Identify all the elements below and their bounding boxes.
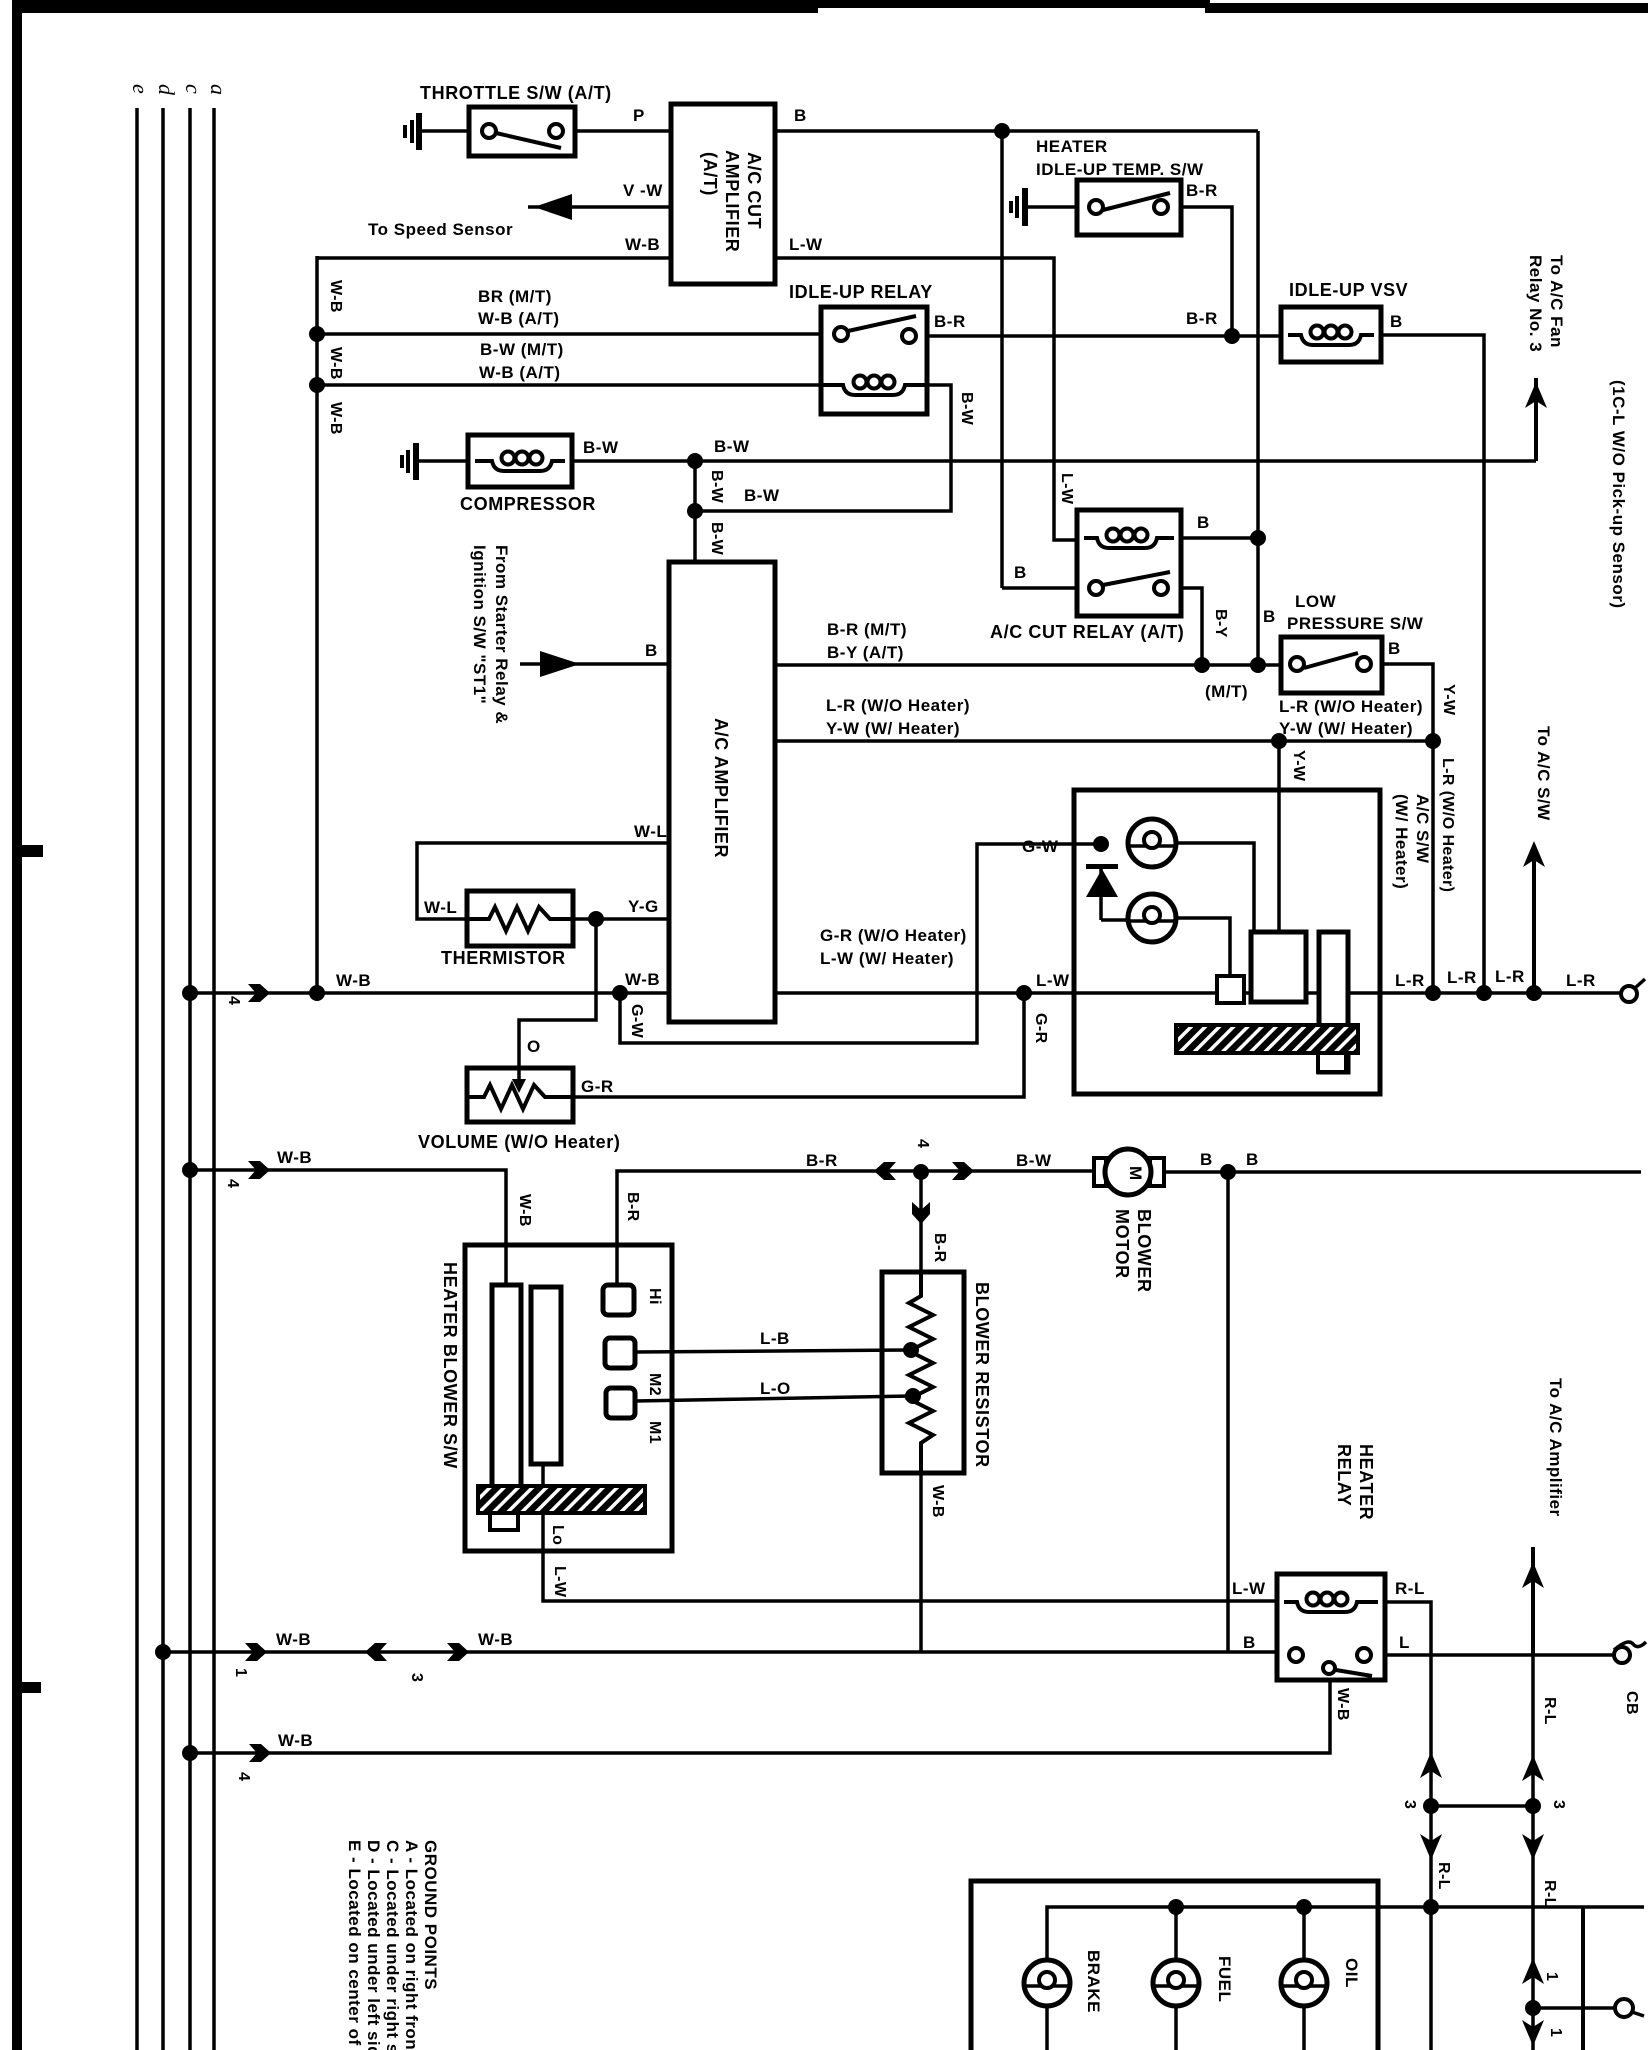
ground bus line d xyxy=(161,108,165,2050)
junction dot riser/relay wire2 xyxy=(309,377,325,393)
wire W-B from amp to left riser xyxy=(317,256,671,260)
junction dot at 1484 xyxy=(1476,985,1492,1001)
svg-text:Lo: Lo xyxy=(549,1525,566,1545)
switch box A/C S/W (W/ Heater) xyxy=(1074,790,1380,1094)
arrow W-B 4 lower xyxy=(249,1744,271,1762)
svg-text:PRESSURE S/W: PRESSURE S/W xyxy=(1287,614,1424,633)
arrow B-W right chevron xyxy=(952,1162,974,1180)
svg-text:B-W: B-W xyxy=(583,438,619,457)
svg-text:W-B: W-B xyxy=(478,1630,513,1649)
svg-text:B-R: B-R xyxy=(624,1192,641,1222)
svg-text:R-L: R-L xyxy=(1541,1880,1558,1908)
wire B down to heater relay xyxy=(1226,1172,1230,1652)
junction dot at bus line d xyxy=(155,1644,171,1660)
ground bus line a xyxy=(212,108,216,2050)
svg-text:d: d xyxy=(154,84,179,96)
svg-text:B: B xyxy=(1200,1150,1213,1169)
junction dot crossover left xyxy=(1423,1798,1439,1814)
svg-text:To A/C Fan: To A/C Fan xyxy=(1547,255,1566,348)
switch THROTTLE S/W (A/T) xyxy=(469,107,575,156)
svg-text:M1: M1 xyxy=(646,1421,663,1444)
svg-text:L-R (W/O Heater): L-R (W/O Heater) xyxy=(826,696,970,715)
relay IDLE-UP RELAY xyxy=(821,307,927,414)
wire OIL drop xyxy=(1302,1907,1306,1960)
svg-text:B-R: B-R xyxy=(1186,309,1218,328)
wire W-B bus ground 1/3 to heater relay B xyxy=(163,1650,1277,1654)
arrow up on right R-L xyxy=(1522,1755,1544,1781)
svg-text:G-R: G-R xyxy=(1032,1013,1049,1044)
svg-text:W-L: W-L xyxy=(424,898,457,917)
svg-text:L-R: L-R xyxy=(1447,968,1477,987)
label BLOWER MOTOR rotated xyxy=(1112,1209,1154,1293)
wire lamp feed drop right xyxy=(1581,1907,1585,2050)
svg-text:B-R: B-R xyxy=(1186,181,1218,200)
relay HEATER RELAY xyxy=(1277,1574,1385,1680)
svg-text:L-R: L-R xyxy=(1395,971,1425,990)
wire G-W down around amp to A/C S/W xyxy=(620,844,1101,1043)
label To A/C Amplifier rotated with arrow xyxy=(1522,1378,1565,1655)
svg-text:CB: CB xyxy=(1623,1691,1640,1715)
wire crossover R-L xyxy=(1431,1804,1533,1808)
junction dot at 1534 xyxy=(1526,985,1542,1001)
svg-text:IDLE-UP RELAY: IDLE-UP RELAY xyxy=(789,282,933,302)
wire relay switch output down xyxy=(1181,588,1202,665)
wire O from Y-G junction to volume xyxy=(519,919,596,1068)
svg-text:1: 1 xyxy=(232,1668,249,1677)
arrow W-B 4 second xyxy=(248,1161,270,1179)
svg-text:M: M xyxy=(1126,1166,1145,1181)
wire B-W down to A/C amplifier top xyxy=(693,461,697,562)
potentiometer VOLUME (W/O Heater) xyxy=(467,1068,573,1122)
junction dot terminal feed xyxy=(1525,2000,1541,2016)
svg-text:L: L xyxy=(1399,1633,1410,1652)
wire R-L heater relay coil down xyxy=(1385,1602,1431,2050)
svg-text:B: B xyxy=(1263,607,1276,626)
lamp FUEL xyxy=(1153,1960,1199,2050)
junction dot at bus line c lower xyxy=(182,1745,198,1761)
label A/C S/W (W/ Heater) rotated xyxy=(1392,794,1432,889)
page frame top bar xyxy=(12,0,818,13)
solenoid IDLE-UP VSV xyxy=(1281,307,1381,362)
wire B-R from idle-up relay to right xyxy=(927,334,1281,338)
svg-text:1: 1 xyxy=(1547,2028,1564,2037)
svg-text:R-L: R-L xyxy=(1395,1579,1425,1598)
svg-text:E - Located on center of engin: E - Located on center of engine xyxy=(345,1840,364,2050)
svg-text:W-B: W-B xyxy=(929,1485,946,1518)
wire R-L right vertical xyxy=(1531,1655,1535,2050)
svg-text:4: 4 xyxy=(224,1179,241,1188)
svg-text:LOW: LOW xyxy=(1295,592,1337,611)
svg-text:FUEL: FUEL xyxy=(1215,1956,1234,2002)
svg-text:COMPRESSOR: COMPRESSOR xyxy=(460,494,596,514)
arrow B-R down to resistor xyxy=(912,1172,930,1272)
svg-text:3: 3 xyxy=(408,1673,425,1682)
svg-text:3: 3 xyxy=(1550,1800,1567,1809)
wire B arrow from starter relay to amp xyxy=(520,651,669,677)
wire B-W compressor to right xyxy=(572,459,1536,463)
svg-text:B-W: B-W xyxy=(708,470,725,504)
junction dot Y-W drop xyxy=(1271,733,1287,749)
svg-text:W-L: W-L xyxy=(634,822,667,841)
svg-text:THERMISTOR: THERMISTOR xyxy=(441,948,566,968)
wire L-B M2 to blower resistor xyxy=(635,1350,911,1352)
box warning lamps xyxy=(971,1881,1378,2050)
svg-text:BR (M/T): BR (M/T) xyxy=(478,287,552,306)
svg-text:P: P xyxy=(633,106,645,125)
svg-text:Ignition S/W "ST1": Ignition S/W "ST1" xyxy=(470,545,489,704)
svg-text:3: 3 xyxy=(1401,1800,1418,1809)
svg-text:B-R: B-R xyxy=(806,1151,838,1170)
svg-text:L-W (W/ Heater): L-W (W/ Heater) xyxy=(820,949,954,968)
svg-text:M2: M2 xyxy=(646,1373,663,1396)
wire B coil output to vertical xyxy=(1181,536,1258,540)
svg-text:B-W: B-W xyxy=(1016,1151,1052,1170)
wire Y-G thermistor to amp xyxy=(573,917,669,921)
svg-text:4: 4 xyxy=(235,1772,252,1781)
svg-text:L-R (W/O Heater): L-R (W/O Heater) xyxy=(1439,758,1456,892)
svg-text:B-R: B-R xyxy=(934,312,966,331)
svg-text:4: 4 xyxy=(914,1139,931,1148)
svg-text:B: B xyxy=(1246,1150,1259,1169)
svg-text:a: a xyxy=(206,84,231,95)
junction dot W-B at bus c xyxy=(182,985,198,1001)
wire Y-W down into A/C S/W xyxy=(1277,741,1281,934)
svg-text:THROTTLE S/W (A/T): THROTTLE S/W (A/T) xyxy=(420,83,612,103)
svg-text:To A/C Amplifier: To A/C Amplifier xyxy=(1546,1378,1565,1517)
svg-text:L-W: L-W xyxy=(1232,1579,1266,1598)
wire ground to throttle switch xyxy=(422,129,469,133)
svg-text:B-W (M/T): B-W (M/T) xyxy=(480,340,564,359)
svg-text:G-W: G-W xyxy=(628,1004,645,1039)
svg-text:B-Y (A/T): B-Y (A/T) xyxy=(827,643,904,662)
svg-text:GROUND POINTS: GROUND POINTS xyxy=(421,1840,440,1990)
arrow W-B 4 xyxy=(248,984,270,1002)
svg-text:IDLE-UP VSV: IDLE-UP VSV xyxy=(1289,280,1408,300)
ground symbol at compressor xyxy=(400,443,419,480)
svg-text:B: B xyxy=(1243,1633,1256,1652)
svg-text:W-B: W-B xyxy=(1334,1688,1351,1721)
svg-text:W-B: W-B xyxy=(327,347,344,380)
wire B branch corner to relay switch xyxy=(1002,586,1077,590)
junction dot Y-G xyxy=(588,911,604,927)
wire B from amp to right xyxy=(775,129,1258,133)
terminal circle L-R right end xyxy=(1621,979,1645,1002)
svg-text:W-B (A/T): W-B (A/T) xyxy=(479,363,561,382)
svg-text:W-B: W-B xyxy=(516,1194,533,1227)
svg-text:W-B: W-B xyxy=(327,402,344,435)
svg-text:A/C CUT: A/C CUT xyxy=(744,152,764,229)
svg-text:B: B xyxy=(1014,563,1027,582)
svg-text:W-B: W-B xyxy=(277,1148,312,1167)
motor BLOWER MOTOR xyxy=(1094,1149,1164,1195)
wire ground to temp switch xyxy=(1028,205,1077,209)
svg-text:VOLUME (W/O Heater): VOLUME (W/O Heater) xyxy=(418,1132,620,1152)
junction dot vertical B on B-R wire xyxy=(1250,657,1266,673)
wire FUEL drop xyxy=(1174,1907,1178,1960)
svg-text:(1C-L W/O Pick-up Sensor): (1C-L W/O Pick-up Sensor) xyxy=(1609,380,1628,609)
ground symbol at temp switch xyxy=(1009,188,1028,226)
svg-text:G-W: G-W xyxy=(1022,837,1059,856)
svg-text:c: c xyxy=(181,84,206,94)
junction dot FUEL xyxy=(1168,1899,1184,1915)
label To A/C Fan Relay No.3 rotated xyxy=(1526,255,1566,352)
svg-text:C - Located under right side o: C - Located under right side of inst xyxy=(383,1840,402,2050)
lamp BRAKE xyxy=(1024,1960,1070,2050)
svg-text:W-B: W-B xyxy=(276,1630,311,1649)
svg-text:To Speed Sensor: To Speed Sensor xyxy=(368,220,513,239)
coil COMPRESSOR xyxy=(468,435,572,487)
svg-text:V -W: V -W xyxy=(623,181,663,200)
wire B branch down x=1002 xyxy=(1000,131,1004,588)
svg-text:(M/T): (M/T) xyxy=(1205,682,1248,701)
svg-text:W-B: W-B xyxy=(327,280,344,313)
svg-text:B: B xyxy=(794,106,807,125)
arrow W-B 1 xyxy=(245,1643,267,1661)
junction dot L-R at 1433 xyxy=(1425,985,1441,1001)
svg-text:B-W: B-W xyxy=(958,392,975,426)
junction dot R-L lamps xyxy=(1423,1899,1439,1915)
wire L-R down to L-W wire xyxy=(1431,741,1435,993)
wire W-B resistor down to W-B bus xyxy=(919,1473,923,1652)
wire to terminal circle xyxy=(1533,2006,1616,2010)
wire L-W from amp right xyxy=(775,258,1077,540)
junction dot coil output xyxy=(1250,530,1266,546)
wire B-R blower switch to connector xyxy=(617,1171,1096,1285)
label GROUND POINTS legend rotated xyxy=(345,1840,440,2050)
wire G-R/L-W amp to right terminal xyxy=(775,991,1621,995)
junction dot B-W upper xyxy=(687,453,703,469)
svg-text:Y-W: Y-W xyxy=(1440,684,1457,716)
junction dot W-B at riser xyxy=(309,985,325,1001)
wire G-R volume to L-W wire xyxy=(573,993,1024,1097)
svg-text:BRAKE: BRAKE xyxy=(1084,1950,1103,2013)
svg-text:HEATER: HEATER xyxy=(1356,1444,1376,1520)
junction dot connector 4 xyxy=(913,1164,929,1180)
junction dot B-W lower xyxy=(687,503,703,519)
wire Lo L-W to heater relay xyxy=(543,1551,1277,1601)
svg-text:To A/C S/W: To A/C S/W xyxy=(1534,726,1553,821)
svg-text:R-L: R-L xyxy=(1435,1862,1452,1890)
terminal circle bottom right xyxy=(1615,1999,1644,2017)
svg-text:L-R: L-R xyxy=(1566,971,1596,990)
svg-text:AMPLIFIER: AMPLIFIER xyxy=(722,150,742,252)
svg-text:OIL: OIL xyxy=(1342,1958,1361,1988)
arrow down right R-L xyxy=(1522,1834,1544,1860)
arrow chevron right after 3 xyxy=(447,1643,469,1661)
wire B-W from relay coil down and left xyxy=(695,385,951,511)
label From Starter Relay & Ignition S/W ST1 rotated xyxy=(470,545,511,724)
svg-text:L-B: L-B xyxy=(760,1329,790,1348)
svg-text:Relay No. 3: Relay No. 3 xyxy=(1526,255,1545,352)
svg-text:B: B xyxy=(645,641,658,660)
left border tick 2 xyxy=(22,1682,41,1693)
lamp OIL xyxy=(1281,1960,1327,2050)
svg-text:B: B xyxy=(1197,513,1210,532)
arrow down right R-L bottom xyxy=(1522,2020,1544,2046)
ground symbol at throttle switch xyxy=(403,113,422,150)
svg-text:B-W: B-W xyxy=(708,522,725,556)
junction dot G-R xyxy=(1016,985,1032,1001)
junction dot riser/relay wire1 xyxy=(309,326,325,342)
svg-text:1: 1 xyxy=(1543,1972,1560,1981)
wire W-B bus to blower switch xyxy=(190,1170,506,1285)
junction dot crossover right xyxy=(1525,1798,1541,1814)
svg-text:Hi: Hi xyxy=(646,1288,663,1305)
switch LOW PRESSURE S/W xyxy=(1281,637,1382,693)
svg-text:B-W: B-W xyxy=(744,486,780,505)
op box A/C AMPLIFIER xyxy=(669,562,775,1022)
svg-text:IDLE-UP TEMP. S/W: IDLE-UP TEMP. S/W xyxy=(1036,160,1204,179)
svg-text:G-R: G-R xyxy=(581,1077,614,1096)
wire W-L loop from amp xyxy=(417,843,669,919)
resistor THERMISTOR xyxy=(467,891,573,946)
svg-text:L-R (W/O Heater): L-R (W/O Heater) xyxy=(1279,697,1423,716)
svg-text:BLOWER RESISTOR: BLOWER RESISTOR xyxy=(972,1282,992,1468)
svg-text:L-W: L-W xyxy=(1058,473,1075,505)
svg-text:L-R: L-R xyxy=(1495,967,1525,986)
svg-text:D - Located under left side of: D - Located under left side of inst xyxy=(364,1840,383,2050)
svg-text:A/C CUT RELAY (A/T): A/C CUT RELAY (A/T) xyxy=(990,622,1184,642)
svg-text:O: O xyxy=(527,1037,541,1056)
wire W-B bus ground 4 to heater relay coil W-B xyxy=(190,1680,1330,1753)
svg-text:RELAY: RELAY xyxy=(1334,1444,1354,1506)
svg-text:B-W: B-W xyxy=(714,437,750,456)
wire low pressure out down to Y-W wire xyxy=(1382,664,1433,741)
svg-text:W-B: W-B xyxy=(278,1731,313,1750)
ground bus line c xyxy=(188,108,192,2050)
page frame left bar xyxy=(12,0,22,2050)
wire W-B riser x=317 xyxy=(315,256,319,993)
svg-text:L-W: L-W xyxy=(1036,971,1070,990)
wire W-B bus to amp xyxy=(190,991,669,995)
junction dot W-B bus line c xyxy=(182,1162,198,1178)
wire L-R/Y-W amp to right xyxy=(775,739,1433,743)
wire lamp feed xyxy=(1047,1907,1644,1960)
svg-text:B-Y: B-Y xyxy=(1212,609,1229,638)
wire P throttle to A/C cut amplifier xyxy=(575,129,671,133)
svg-text:W-B: W-B xyxy=(625,235,660,254)
svg-text:Y-W (W/ Heater): Y-W (W/ Heater) xyxy=(1279,719,1413,738)
op box A/C CUT AMPLIFIER (A/T) xyxy=(671,104,775,284)
wire bus1 BR(M/T) W-B(A/T) to idle-up relay xyxy=(317,332,821,336)
wire B-R temp switch down to bus xyxy=(1181,207,1232,336)
svg-text:W-B: W-B xyxy=(336,971,371,990)
svg-text:e: e xyxy=(128,84,153,94)
arrow up on left R-L xyxy=(1420,1752,1442,1778)
svg-text:(A/T): (A/T) xyxy=(700,152,720,196)
switch HEATER IDLE-UP TEMP S/W xyxy=(1077,180,1181,235)
relay A/C CUT RELAY (A/T) xyxy=(1077,510,1181,616)
svg-text:HEATER BLOWER S/W: HEATER BLOWER S/W xyxy=(440,1262,460,1469)
svg-text:L-O: L-O xyxy=(760,1379,791,1398)
svg-text:A - Located on right front fen: A - Located on right front fender xyxy=(402,1840,421,2050)
junction dot B branch xyxy=(994,123,1010,139)
left border tick 1 xyxy=(22,845,43,857)
label HEATER RELAY rotated xyxy=(1334,1444,1376,1520)
svg-text:Y-G: Y-G xyxy=(628,897,659,916)
wire ground to compressor xyxy=(419,459,468,463)
svg-text:MOTOR: MOTOR xyxy=(1112,1209,1132,1279)
wire V-W to speed sensor with arrow xyxy=(528,194,671,220)
svg-text:W-B: W-B xyxy=(625,970,660,989)
ground bus line e xyxy=(135,108,139,2050)
resistor BLOWER RESISTOR xyxy=(882,1272,964,1473)
svg-text:B-R: B-R xyxy=(931,1233,948,1263)
wire B from VSV right, down x=1484 xyxy=(1381,335,1484,993)
svg-text:(W/ Heater): (W/ Heater) xyxy=(1392,794,1411,889)
wire to A/C fan relay No.3 with up arrow xyxy=(1525,378,1547,461)
svg-text:R-L: R-L xyxy=(1541,1697,1558,1725)
svg-text:L-W: L-W xyxy=(789,235,823,254)
svg-text:B: B xyxy=(1388,639,1401,658)
svg-text:B: B xyxy=(1390,312,1403,331)
junction dot OIL xyxy=(1296,1899,1312,1915)
junction dot temp switch drop xyxy=(1224,328,1240,344)
switch box HEATER BLOWER S/W xyxy=(465,1245,672,1551)
wire B corner down x=1258 xyxy=(1256,131,1260,665)
svg-text:HEATER: HEATER xyxy=(1036,137,1108,156)
junction dot L-R drop xyxy=(1425,733,1441,749)
arrow chevron left 3 xyxy=(365,1643,387,1661)
svg-text:4: 4 xyxy=(225,996,242,1005)
svg-text:A/C S/W: A/C S/W xyxy=(1413,794,1432,864)
svg-text:L-W: L-W xyxy=(551,1566,568,1598)
wire B-R(M/T) B-Y(A/T) amp to low pressure xyxy=(775,663,1281,667)
arrow B-R left chevron xyxy=(874,1162,896,1180)
svg-text:A/C AMPLIFIER: A/C AMPLIFIER xyxy=(711,718,731,858)
svg-text:BLOWER: BLOWER xyxy=(1134,1209,1154,1293)
breaker CB terminal xyxy=(1614,1642,1646,1663)
wire L-O M1 to blower resistor xyxy=(635,1396,913,1401)
svg-text:Y-W: Y-W xyxy=(1290,750,1307,782)
junction dot B drop to heater relay xyxy=(1220,1164,1236,1180)
junction dot G-W branch xyxy=(612,985,628,1001)
junction dot switch output on B-R wire xyxy=(1194,657,1210,673)
wire B motor to right xyxy=(1164,1170,1641,1174)
svg-text:From Starter Relay &: From Starter Relay & xyxy=(492,545,511,724)
svg-text:B-R (M/T): B-R (M/T) xyxy=(827,620,907,639)
svg-text:G-R (W/O Heater): G-R (W/O Heater) xyxy=(820,926,967,945)
svg-text:W-B (A/T): W-B (A/T) xyxy=(478,309,560,328)
arrow up right R-L above terminal xyxy=(1522,1958,1544,1984)
label To A/C S/W rotated with arrow xyxy=(1523,726,1553,993)
arrow down left R-L xyxy=(1420,1834,1442,1860)
svg-text:Y-W (W/ Heater): Y-W (W/ Heater) xyxy=(826,719,960,738)
wire L heater relay to CB xyxy=(1385,1653,1614,1657)
wire bus2 B-W(M/T) W-B(A/T) to idle-up relay coil xyxy=(317,383,821,387)
